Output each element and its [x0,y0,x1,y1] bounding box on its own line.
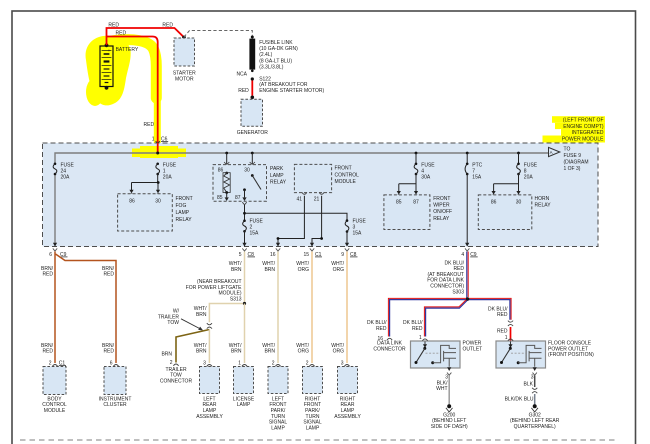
svg-text:S313: S313 [230,296,242,302]
svg-text:RED: RED [144,122,155,128]
svg-text:1: 1 [505,335,508,341]
svg-text:1: 1 [152,136,155,142]
wire RED S122 to generator [251,81,253,96]
svg-text:87: 87 [413,200,419,206]
front control module box [294,164,331,192]
svg-text:2: 2 [170,360,173,366]
svg-text:FUSE: FUSE [250,218,264,224]
BCM pin arc [52,365,57,367]
svg-text:RED: RED [116,31,127,37]
svg-text:SIDE OF DASH): SIDE OF DASH) [431,424,468,430]
wire RED C6 to bus [157,143,159,153]
floor console outlet element [517,361,520,364]
svg-text:2: 2 [306,361,309,367]
svg-text:1 OF 3): 1 OF 3) [564,166,581,172]
svg-text:BRN: BRN [264,349,275,355]
wire bus to fuse4 [415,153,417,164]
svg-text:FUSE: FUSE [353,218,367,224]
svg-text:TOW: TOW [167,320,179,326]
Integrated Power Module box [43,143,599,247]
svg-text:RED: RED [162,22,173,28]
svg-text:FUSIBLE LINK: FUSIBLE LINK [259,40,293,46]
exit arrowhead 6 C9 [53,243,57,247]
wire WHT/ORG exit9 to right rear lamp [346,252,348,364]
fuse F8 symbol [517,163,520,166]
svg-text:RELAY: RELAY [270,180,287,186]
fuse F4 symbol [415,163,418,166]
fuse F24 symbol [53,163,57,175]
wire WHT/ORG exit15 to right front park lamp [311,252,313,364]
park lamp relay box K2 [213,165,267,202]
exit fork 6 C9 [53,248,57,251]
ground G302 symbol [533,404,537,408]
svg-text:ORG: ORG [333,349,345,355]
corner dot on 41 wire [277,237,280,240]
svg-text:RED: RED [108,22,119,28]
svg-text:(LEFT FRONT OF: (LEFT FRONT OF [563,118,604,124]
svg-text:RED: RED [238,88,249,94]
svg-text:MODULE: MODULE [335,179,357,185]
svg-text:RELAY: RELAY [176,217,193,223]
svg-text:BLK/DK BLU: BLK/DK BLU [505,397,534,403]
svg-text:BLK: BLK [524,381,534,387]
svg-text:87: 87 [235,195,241,201]
fusible link bottom dot [251,70,254,73]
svg-text:FRONT: FRONT [433,196,450,202]
svg-text:15: 15 [303,252,309,258]
DLC pin arc [387,338,392,340]
wire bus to PTC7 [466,153,468,164]
svg-text:INTEGRATED: INTEGRATED [572,130,604,136]
svg-text:16: 16 [270,252,276,258]
wire 87 to box bottom [244,190,246,198]
svg-text:(8 GA-LT BLU): (8 GA-LT BLU) [259,58,292,64]
arrowhead into horn relay 86 [492,191,496,195]
wire bus to fuse8 [518,153,520,164]
PTC 7 symbol [466,163,469,166]
svg-text:ENGINE COMPT): ENGINE COMPT) [563,124,604,130]
wire PTC7 down to exit 4 [466,174,468,243]
arrowhead into wiper relay 87 [414,191,418,195]
svg-text:TO: TO [564,147,571,153]
power outlet pin3 exit arrow [447,367,451,371]
wire junction to fuse3 (horizontal) [245,213,348,220]
battery bottom terminal dot [105,86,109,90]
highlighter tail along red wire [112,40,156,98]
off-page triangle connector A [549,147,560,156]
wire WHT/BRN exit16 to left front park lamp [277,252,279,364]
svg-text:CLUSTER: CLUSTER [103,402,127,408]
svg-text:RED: RED [412,326,423,332]
front fog lamp relay box K1 [118,194,173,231]
svg-text:6: 6 [110,361,113,367]
exit arrowhead 4 C9 [465,243,469,247]
svg-text:20A: 20A [163,175,173,181]
highlighter band on bus at C6 [132,149,186,158]
svg-text:BRN: BRN [264,267,275,273]
power outlet mechanical link (dashed) [426,352,441,354]
svg-text:3: 3 [341,361,344,367]
bus tap dot fuse 8 [517,152,520,155]
junction dot at fog relay T [157,181,160,184]
svg-text:A: A [550,150,553,155]
power outlet switch [423,344,427,348]
svg-text:WIPER: WIPER [433,203,450,209]
svg-text:BRN: BRN [231,349,242,355]
connector arcs at park relay box edge [224,162,229,166]
inline connector break (floor console feed) [508,321,513,326]
splice S122 dot [251,77,254,80]
svg-text:S303: S303 [452,289,464,295]
svg-text:ON/OFF: ON/OFF [433,209,452,215]
floor console mechanical link (dashed) [511,352,526,354]
svg-text:FRONT: FRONT [176,196,193,202]
wire BLK floor console to connector [534,376,536,388]
svg-text:85: 85 [217,195,223,201]
wire bus to park relay switch terminal 30 [251,153,253,175]
connector arc fog relay 86 [129,194,134,196]
wire DK BLU/RED exit4 to S303 (two-tone) [466,252,468,300]
connector arc horn relay 30 [516,195,521,197]
splice dot S303 [466,297,469,300]
generator box [241,99,263,126]
fuse F3 symbol [346,219,349,222]
power outlet box [411,341,461,368]
wire RED connector to floor console outlet [510,327,512,341]
wire fuse8 to horn relay T-split [494,174,519,191]
svg-text:FRONT: FRONT [335,166,352,172]
park relay switch contact 87 dot [243,188,246,191]
callout arrow to connector [181,319,201,329]
svg-text:(DIAGRAM: (DIAGRAM [564,159,589,165]
wire BRN/RED branch to instrument cluster [56,254,117,363]
wire DK BLU/RED S303 to power outlet [426,300,468,337]
svg-text:3: 3 [203,361,206,367]
svg-text:LAMP: LAMP [306,425,320,431]
inline connector break (w/ trailer tow) [207,323,212,328]
wire BRN connector to trailer tow connector [176,330,209,363]
svg-text:20A: 20A [61,175,71,181]
svg-text:15A: 15A [250,231,260,237]
battery top terminal dot [105,43,109,47]
svg-text:41: 41 [296,197,302,203]
wire RED battery branch down to IPM C6 [107,37,158,153]
svg-text:FOG: FOG [176,203,187,209]
svg-text:15A: 15A [353,231,363,237]
main bus B+ line [55,153,549,245]
svg-text:RED: RED [376,326,387,332]
svg-text:4: 4 [461,252,464,258]
splice dot S313 [243,302,246,305]
wire fuse4 to wiper relay T-split [399,174,416,191]
wire DK BLU/RED S303 right to floor console branch [468,300,510,320]
license lamp box [234,367,254,394]
floor console pin3 exit arrow [533,367,537,371]
svg-text:FUSE 9: FUSE 9 [564,153,582,159]
svg-text:86: 86 [491,200,497,206]
svg-text:30: 30 [244,167,250,173]
arrowhead into wiper relay 85 [397,191,401,195]
park relay switch blade [251,174,254,177]
park relay coil [225,172,228,175]
horn relay box [478,195,532,230]
exit arrowhead 9 C8 [345,243,349,247]
arrowhead 87 at box bottom [242,197,246,201]
svg-text:RED: RED [42,272,53,278]
wire WHT/BRN connector to left rear lamp [208,330,210,364]
svg-text:OUTLET: OUTLET [463,346,483,352]
svg-text:CONNECTOR: CONNECTOR [373,346,406,352]
svg-text:BRN: BRN [231,267,242,273]
svg-text:RED: RED [497,328,508,334]
fuse F2 symbol [243,219,246,222]
fusible link top dot [251,36,254,39]
FCM pin 21 connector arc [319,192,324,194]
exit arrowhead 15 C1 [310,243,314,247]
svg-text:1: 1 [419,335,422,341]
svg-text:30: 30 [516,200,522,206]
junction dot fuse2/fuse3 [243,212,246,215]
wire DK BLU/RED S303 to data link connector [390,300,468,337]
power outlet pin1 arc [422,339,427,341]
svg-text:RED: RED [103,272,114,278]
svg-text:BRN: BRN [196,312,207,318]
wire 87 down to fuse2/fuse3 junction [244,205,246,220]
connector fork below 87 [242,202,246,205]
svg-text:ENGINE STARTER MOTOR): ENGINE STARTER MOTOR) [259,88,324,94]
svg-text:LAMP: LAMP [270,173,284,179]
svg-text:30: 30 [155,198,161,204]
wire fuse2 to exit 5 [244,231,246,243]
svg-text:RELAY: RELAY [433,216,450,222]
svg-text:2: 2 [272,361,275,367]
svg-text:20A: 20A [524,175,534,181]
highlighter small blob lower-left of battery [86,78,104,106]
svg-text:CONNECTOR: CONNECTOR [160,378,193,384]
svg-text:1: 1 [238,361,241,367]
bus tap dot park relay coil [225,152,228,155]
wire coil to 85 [226,193,228,198]
svg-text:LAMP: LAMP [237,402,251,408]
svg-text:PARK: PARK [270,166,284,172]
corner dot on 21 wire [320,237,323,240]
svg-text:+: + [108,48,111,53]
wire BLK/DK BLU to G302 [534,394,536,405]
svg-text:86: 86 [129,198,135,204]
exit arrowhead 16 [276,243,280,247]
svg-text:ORG: ORG [298,267,310,273]
exit fork 4 C9 [465,248,469,251]
front wiper on/off relay box [384,195,430,230]
left front park/turn signal lamp box [268,367,288,394]
junction dot at starter motor B+ [182,36,186,40]
right front park/turn signal lamp box [303,367,323,394]
wire WHT/BRN exit5 to S313 [244,252,246,304]
highlighter lines over module location text [552,116,605,123]
svg-text:ASSEMBLY: ASSEMBLY [334,414,361,420]
wire WHT/BRN S313 to license lamp [244,304,246,364]
power outlet element [431,361,434,364]
svg-text:BRN: BRN [161,352,172,358]
inline connector break (ground wire) [532,388,537,393]
svg-text:BRN: BRN [196,349,207,355]
svg-text:RED: RED [497,312,508,318]
wire BRN/RED exit6 to body control module [54,252,56,364]
connector fork at C6 entry [156,141,160,144]
instrument cluster box [104,367,126,395]
exit fork 9 C8 [345,248,349,251]
svg-text:9: 9 [341,252,344,258]
svg-text:WHT: WHT [436,386,447,392]
svg-text:POWER MODULE: POWER MODULE [562,136,604,142]
wire WHT/BRN S313 branch left to trailer-tow connector break [209,304,244,323]
connector arc wiper relay 87 [413,195,418,197]
svg-text:3: 3 [531,374,534,380]
wire FCM 21 to exit 15 [312,196,322,243]
floor console power outlet box [496,341,546,368]
svg-text:(10 GA-DK GRN): (10 GA-DK GRN) [259,46,298,52]
arrowhead into fog relay 86 [129,190,133,194]
junction dot bus/C6 [156,152,159,155]
svg-text:ORG: ORG [298,349,310,355]
svg-text:6: 6 [49,252,52,258]
svg-text:30A: 30A [421,175,431,181]
svg-text:(2.4L): (2.4L) [259,52,272,58]
bus tap dot fuse 4 [415,152,418,155]
svg-text:QUARTERPANEL): QUARTERPANEL) [514,424,556,430]
svg-text:RED: RED [103,349,114,355]
wire fuse3 to exit 9 [346,232,348,244]
svg-text:3: 3 [353,224,356,230]
arrowhead into horn relay 30 [516,191,520,195]
exit fork 15 C1 [310,248,314,251]
wire BLK/WHT power outlet to G200 [448,376,450,405]
svg-text:(3.3L/3.8L): (3.3L/3.8L) [259,64,284,70]
svg-text:2: 2 [49,361,52,367]
wire NCA dashed from starter junction to fusible link [184,31,252,38]
bus tap dot park relay switch [251,152,254,155]
exit fork 16 [276,248,280,251]
svg-text:LAMP: LAMP [271,425,285,431]
wire FCM 41 to exit 16 [278,196,304,243]
body control module box [43,367,66,395]
floor console switch [508,344,512,348]
bus tap dot PTC 7 [466,152,469,155]
wire fuse1 to fog relay T-split [132,174,159,190]
svg-text:MOTOR: MOTOR [175,76,194,82]
svg-text:NCA: NCA [236,72,247,78]
exit fork 5 C8 [242,248,246,251]
IC pin arc [113,365,118,367]
fuse F1 symbol [156,163,160,175]
svg-text:RELAY: RELAY [535,203,552,209]
arrowhead 85 at box bottom [225,197,229,201]
svg-text:CONTROL: CONTROL [335,172,360,178]
ground G200 symbol [447,404,451,408]
connector arc wiper relay 85 [396,195,401,197]
wire bus to park relay coil terminal 86 [226,153,228,173]
fusible link body [249,39,255,70]
FCM pin 41 connector arc [302,192,307,194]
starter motor box [174,38,195,66]
svg-text:21: 21 [314,197,320,203]
svg-text:BATTERY: BATTERY [116,47,139,53]
connector arc fog relay 30 [155,194,160,196]
svg-text:LAMP: LAMP [176,210,190,216]
svg-text:(FRONT POSITION): (FRONT POSITION) [548,352,594,358]
svg-text:RED: RED [42,349,53,355]
generator terminal dot [251,96,255,100]
wire RED battery to starter motor (upper run) [107,28,185,45]
svg-text:15A: 15A [472,175,482,181]
floor console pin1 arc [508,339,513,341]
svg-text:GENERATOR: GENERATOR [237,130,269,136]
exit arrowhead 5 C8 [242,243,246,247]
trailer tow connector pin arc [173,364,178,366]
svg-text:ASSEMBLY: ASSEMBLY [196,414,223,420]
svg-text:MODULE: MODULE [44,408,66,414]
highlighter blob over battery [86,36,131,106]
bottom section divider (dashed, next diagram) [20,439,615,441]
left rear lamp assembly box [200,367,220,394]
svg-text:HORN: HORN [535,196,550,202]
arrowhead into fog relay 30 [156,190,160,194]
battery B1 symbol [100,46,113,87]
svg-text:5: 5 [239,252,242,258]
svg-text:2: 2 [250,224,253,230]
connector arc horn relay 86 [491,195,496,197]
svg-text:ORG: ORG [333,267,345,273]
right rear lamp assembly box [338,367,358,394]
svg-text:85: 85 [396,200,402,206]
